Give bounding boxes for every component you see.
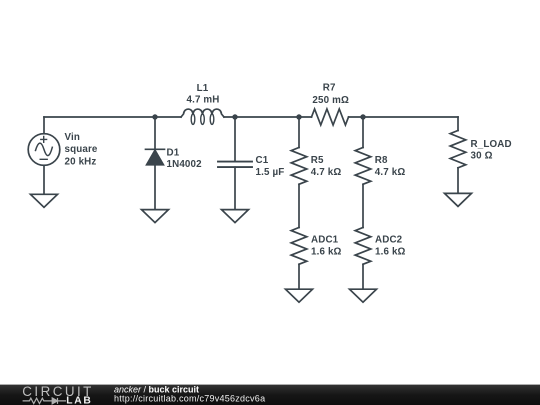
svg-text:D1: D1 (167, 147, 180, 158)
wire C1 bottom lead (234, 167, 236, 209)
wire C1 top lead (234, 117, 236, 161)
svg-text:C1: C1 (256, 155, 269, 166)
node D1 junction (152, 114, 157, 119)
resistor R7 (312, 109, 349, 125)
svg-text:R_LOAD: R_LOAD (471, 139, 512, 150)
capacitor C1 (218, 162, 252, 168)
node C1 junction (232, 114, 237, 119)
resistor R_LOAD (450, 131, 466, 168)
footer bar (0, 385, 540, 405)
ground (ADC1) (286, 289, 313, 302)
wire R5 to ADC1 (298, 184, 300, 227)
wire D1 cathode lead (154, 117, 156, 149)
ground (D1) (142, 210, 169, 223)
svg-text:20 kHz: 20 kHz (65, 156, 97, 167)
svg-text:R5: R5 (311, 155, 324, 166)
svg-text:R8: R8 (375, 155, 388, 166)
wire R_LOAD bottom lead (457, 168, 459, 194)
svg-text:30 Ω: 30 Ω (471, 151, 493, 162)
wire R_LOAD top lead (457, 117, 459, 131)
resistor R8 (355, 148, 371, 185)
logo resistor-diode graphic (23, 398, 66, 404)
svg-text:1N4002: 1N4002 (167, 159, 203, 170)
inductor L1 (181, 109, 224, 124)
svg-text:ADC2: ADC2 (375, 235, 403, 246)
svg-text:Vin: Vin (65, 132, 81, 143)
svg-text:1.5 µF: 1.5 µF (256, 167, 285, 178)
svg-text:R7: R7 (323, 83, 336, 94)
diode D1 (146, 149, 165, 165)
wire source bottom lead (43, 165, 45, 194)
wire ADC2 bottom lead (362, 264, 364, 289)
resistor R5 (291, 148, 307, 185)
wire R8 to ADC2 (362, 184, 364, 227)
wire source top lead (43, 117, 45, 134)
wire R8 top lead (362, 117, 364, 148)
svg-text:L1: L1 (197, 83, 209, 94)
wire R5 top lead (298, 117, 300, 148)
ground (ADC2) (350, 289, 377, 302)
wire top rail right (R7 to R_LOAD corner) (349, 116, 458, 118)
svg-text:4.7 mH: 4.7 mH (186, 95, 219, 106)
node R5 junction (296, 114, 301, 119)
svg-text:1.6 kΩ: 1.6 kΩ (311, 247, 342, 258)
svg-text:ADC1: ADC1 (311, 235, 339, 246)
svg-text:250 mΩ: 250 mΩ (312, 95, 349, 106)
resistor ADC1 (291, 228, 307, 265)
svg-text:4.7 kΩ: 4.7 kΩ (311, 167, 342, 178)
svg-text:square: square (65, 144, 98, 155)
svg-text:4.7 kΩ: 4.7 kΩ (375, 167, 406, 178)
ground (R_LOAD) (445, 193, 472, 206)
node R8 junction (360, 114, 365, 119)
node junction dots (152, 114, 365, 119)
wire ADC1 bottom lead (298, 264, 300, 289)
svg-text:1.6 kΩ: 1.6 kΩ (375, 247, 406, 258)
ground (C1) (222, 210, 249, 223)
svg-text:http://circuitlab.com/c79v456z: http://circuitlab.com/c79v456zdcv6a (114, 393, 265, 403)
svg-text:LAB: LAB (66, 395, 92, 405)
ground (source) (31, 194, 58, 207)
wire top rail left (source to L1) (44, 116, 181, 118)
resistor ADC2 (355, 228, 371, 265)
voltage source Vin (28, 134, 60, 166)
wire D1 anode lead (154, 165, 156, 210)
wire top rail mid (L1 to R7) (224, 116, 312, 118)
